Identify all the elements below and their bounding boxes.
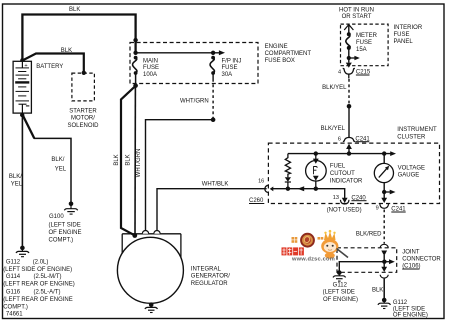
svg-text:BLK/: BLK/ xyxy=(9,174,22,180)
starter motor/solenoid xyxy=(67,73,99,129)
svg-text:JOINT: JOINT xyxy=(402,249,420,255)
joint connector C106 box xyxy=(337,248,441,272)
generator plate xyxy=(122,231,181,259)
svg-text:BLK: BLK xyxy=(61,48,72,54)
svg-text:(LEFT SIDE: (LEFT SIDE xyxy=(323,290,355,296)
svg-text:HOT IN RUN: HOT IN RUN xyxy=(339,8,374,14)
svg-text:(LEFT SIDE: (LEFT SIDE xyxy=(49,222,81,228)
wire BLK battery to starter motor xyxy=(22,48,83,73)
svg-text:OR START: OR START xyxy=(342,14,372,20)
fuse METER FUSE 15A xyxy=(346,32,378,62)
svg-text:INTEGRAL: INTEGRAL xyxy=(191,266,222,272)
generator/regulator circle xyxy=(117,237,230,303)
svg-text:(LEFT REAR OF ENGINE): (LEFT REAR OF ENGINE) xyxy=(3,282,75,288)
fuel cutout indicator xyxy=(306,154,363,189)
watermark mascot xyxy=(321,230,348,259)
junction and arrow stub inside fuse panel xyxy=(347,56,360,61)
wire BLK/RED to joint connector (dashed) xyxy=(356,210,384,244)
wire BLK/YEL C215 to C241 (dashed then solid) xyxy=(322,79,349,106)
wire WHT/GRN to generator xyxy=(136,120,213,231)
svg-text:FUSE BOX: FUSE BOX xyxy=(265,58,295,64)
svg-text:COMPARTMENT: COMPARTMENT xyxy=(265,51,312,57)
svg-text:(NOT USED): (NOT USED) xyxy=(327,208,362,214)
watermark seal logo xyxy=(292,233,324,248)
svg-text:FUSE: FUSE xyxy=(356,40,372,46)
svg-text:9: 9 xyxy=(376,206,379,212)
ground G112 (right) xyxy=(378,298,428,319)
junction battery positive xyxy=(20,58,24,62)
svg-text:OF ENGINE): OF ENGINE) xyxy=(323,297,358,303)
svg-text:OF ENGINE: OF ENGINE xyxy=(49,230,82,236)
svg-text:WHT/GRN: WHT/GRN xyxy=(136,149,142,178)
svg-text:G100: G100 xyxy=(49,214,64,220)
svg-text:FUSE: FUSE xyxy=(394,32,410,38)
svg-text:SOLENOID: SOLENOID xyxy=(67,123,99,129)
arrow feed at top of meter fuse xyxy=(344,25,353,35)
svg-text:+: + xyxy=(24,63,27,69)
top bus wire in cluster xyxy=(288,151,396,156)
ground G100 xyxy=(49,202,82,244)
connector at joint connector top xyxy=(380,244,388,272)
connector C260 pin 16 xyxy=(249,179,273,205)
lower bus wire in cluster xyxy=(273,186,345,199)
svg-text:CLUSTER: CLUSTER xyxy=(397,134,426,140)
svg-text:FUEL: FUEL xyxy=(330,164,346,170)
ground G112 (left side of engine) xyxy=(323,270,358,302)
svg-text:FUSE: FUSE xyxy=(222,65,238,71)
svg-text:YEL: YEL xyxy=(55,166,67,172)
svg-text:6: 6 xyxy=(338,137,341,143)
svg-text:BLK/YEL: BLK/YEL xyxy=(322,85,347,91)
svg-text:STARTER: STARTER xyxy=(69,108,97,114)
connector C215 pin 4 xyxy=(338,63,371,79)
svg-text:COMPT.): COMPT.) xyxy=(49,237,74,243)
svg-text:16: 16 xyxy=(258,179,264,185)
svg-text:GAUGE: GAUGE xyxy=(398,173,420,179)
wire BLK/YEL battery negative to G112 xyxy=(9,113,23,248)
instrument cluster box xyxy=(268,127,439,204)
wire BLK/YEL solid to C241 xyxy=(321,106,349,137)
svg-text:INTERIOR: INTERIOR xyxy=(394,25,423,31)
svg-text:WHT/BLK: WHT/BLK xyxy=(202,181,229,187)
svg-text:G114: G114 xyxy=(6,274,21,280)
svg-text:(2.0L): (2.0L) xyxy=(33,259,49,265)
connector C241 pin 6 xyxy=(338,136,371,153)
svg-text:MAIN: MAIN xyxy=(143,58,158,64)
voltage gauge xyxy=(374,154,425,183)
svg-text:COMPT.): COMPT.) xyxy=(3,304,28,310)
wire WHT/GRN fuse to junction (dashed) xyxy=(180,79,213,120)
connector at joint connector bottom xyxy=(380,275,388,278)
wire inside fuse box to F/P INJ fuse with arrow xyxy=(136,50,225,55)
svg-text:G112: G112 xyxy=(333,283,348,289)
svg-text:MOTOR/: MOTOR/ xyxy=(71,116,95,122)
svg-text:www.dzsc.com: www.dzsc.com xyxy=(291,257,335,263)
svg-text:G116: G116 xyxy=(6,290,21,296)
svg-text:BLK/YEL: BLK/YEL xyxy=(321,126,346,132)
junction starter box top xyxy=(82,71,86,75)
junction F/P INJ fuse top xyxy=(211,51,215,55)
resistor and diode branch xyxy=(285,154,291,189)
svg-text:BLK: BLK xyxy=(114,154,120,165)
svg-text:FUSE: FUSE xyxy=(143,65,159,71)
wire BLK battery positive to fuse box xyxy=(22,7,135,61)
svg-text:13: 13 xyxy=(333,195,339,201)
fuse F/P INJ FUSE 30A xyxy=(210,56,241,79)
svg-text:PANEL: PANEL xyxy=(394,39,414,45)
svg-text:BLK: BLK xyxy=(126,154,132,165)
svg-text:BATTERY: BATTERY xyxy=(36,64,63,70)
junction main fuse top xyxy=(133,51,137,55)
wire BLK/YEL battery negative to G100 xyxy=(22,115,71,204)
wire WHT/BLK generator to C260 xyxy=(157,181,267,231)
svg-text:30A: 30A xyxy=(222,72,233,78)
svg-text:BLK: BLK xyxy=(372,288,383,294)
ground G112/G114/G116 xyxy=(3,246,75,318)
engine compartment fuse box xyxy=(130,43,311,84)
arrow stub right of joint connector xyxy=(384,259,394,264)
svg-text:INDICATOR: INDICATOR xyxy=(330,178,363,184)
fuse MAIN FUSE 100A xyxy=(133,56,160,86)
svg-text:100A: 100A xyxy=(143,72,157,78)
svg-text:BLK/RED: BLK/RED xyxy=(356,232,382,238)
interior fuse panel box xyxy=(341,24,423,66)
svg-text:GENERATOR/: GENERATOR/ xyxy=(191,274,230,280)
wire BLK cable to generator (left loop) xyxy=(114,86,136,236)
junction battery negative xyxy=(20,113,24,117)
svg-text:METER: METER xyxy=(356,33,378,39)
wire BLK fuse to generator (straight) xyxy=(126,86,136,236)
svg-text:(LEFT SIDE OF ENGINE): (LEFT SIDE OF ENGINE) xyxy=(3,267,72,273)
svg-text:74661: 74661 xyxy=(6,312,23,318)
watermark text xyxy=(282,247,335,262)
connector C240 pin 13 (not used) xyxy=(327,195,367,213)
svg-text:(2.5L-M/T): (2.5L-M/T) xyxy=(34,274,62,280)
svg-text:CONNECTOR: CONNECTOR xyxy=(402,257,441,263)
junction below main fuse xyxy=(133,83,138,88)
svg-text:BLK/: BLK/ xyxy=(51,157,64,163)
svg-text:WHT/GRN: WHT/GRN xyxy=(180,98,209,104)
svg-text:(2.5L-A/T): (2.5L-A/T) xyxy=(34,290,61,296)
svg-text:4: 4 xyxy=(338,69,341,75)
wire BLK joint connector to G112 xyxy=(372,279,384,300)
junction inside joint connector xyxy=(382,260,386,264)
label HOT IN RUN OR START xyxy=(339,8,374,21)
svg-text:OF ENGINE): OF ENGINE) xyxy=(393,313,428,319)
svg-text:(LEFT REAR OF ENGINE: (LEFT REAR OF ENGINE xyxy=(3,297,73,303)
svg-text:ENGINE: ENGINE xyxy=(265,44,288,50)
connector C241 pin 9 xyxy=(376,204,407,213)
svg-text:YEL: YEL xyxy=(11,182,23,188)
svg-text:VOLTAGE: VOLTAGE xyxy=(398,165,425,171)
svg-text:G112: G112 xyxy=(6,259,21,265)
svg-text:F/P INJ: F/P INJ xyxy=(222,59,242,65)
wire gauge to C241 pin 9 xyxy=(381,183,395,203)
battery B1 xyxy=(13,61,63,113)
junction above fuse box xyxy=(133,38,137,42)
svg-text:INSTRUMENT: INSTRUMENT xyxy=(397,127,437,133)
wire to ground G112 left xyxy=(339,262,384,273)
svg-text:REGULATOR: REGULATOR xyxy=(191,281,228,287)
svg-text:15A: 15A xyxy=(356,47,367,53)
svg-text:CUTOUT: CUTOUT xyxy=(330,171,355,177)
svg-text:(LEFT SIDE: (LEFT SIDE xyxy=(393,306,425,312)
svg-text:BLK: BLK xyxy=(69,7,80,13)
junction WHT/GRN corner xyxy=(211,117,216,122)
junction BLK/YEL xyxy=(347,104,352,109)
svg-text:G112: G112 xyxy=(393,300,408,306)
junction generator plate xyxy=(132,233,137,238)
ground generator xyxy=(145,302,158,312)
